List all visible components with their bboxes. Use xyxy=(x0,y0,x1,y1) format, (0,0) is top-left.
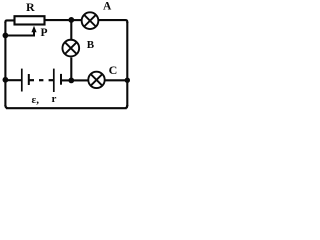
svg-text:R: R xyxy=(26,0,35,14)
lamp A xyxy=(82,12,99,29)
svg-text:A: A xyxy=(103,1,112,13)
junction dot right xyxy=(125,78,130,83)
wire slider horizontal xyxy=(5,31,34,36)
svg-text:C: C xyxy=(109,63,118,77)
battery dash xyxy=(39,79,43,81)
battery cell2 long plate xyxy=(53,69,55,92)
battery cell1 short plate xyxy=(28,74,30,85)
wire bottom xyxy=(5,105,127,108)
battery cell1 tick xyxy=(30,79,35,81)
junction dot battery left xyxy=(3,77,9,83)
slider arrow P head xyxy=(31,26,36,32)
wire lamp B to battery line xyxy=(70,58,72,81)
wire left vertical xyxy=(4,22,6,106)
lamp B xyxy=(62,40,79,57)
wire node to lamp A xyxy=(68,19,82,21)
wire lamp C to right wire xyxy=(105,79,127,81)
svg-text:r: r xyxy=(52,93,57,105)
wire battery left xyxy=(5,79,21,81)
battery cell2 tick xyxy=(49,79,54,81)
battery cell2 short plate xyxy=(60,74,62,85)
node junction top xyxy=(68,17,74,23)
wire node to lamp C xyxy=(73,79,88,81)
wire right vertical xyxy=(126,22,128,106)
wire top-left corner to resistor xyxy=(5,20,14,23)
wire battery to node xyxy=(62,79,69,81)
wire resistor right to node xyxy=(45,19,69,21)
lamp C xyxy=(88,72,104,88)
svg-text:B: B xyxy=(87,39,95,51)
wire node to lamp B xyxy=(70,20,72,39)
wire lamp A to right corner xyxy=(99,20,128,23)
svg-text:P: P xyxy=(41,27,48,39)
battery cell1 long plate xyxy=(21,69,23,92)
junction dot slider xyxy=(3,33,9,39)
resistor R box xyxy=(15,16,45,24)
node junction bottom xyxy=(68,78,74,84)
svg-text:ε,: ε, xyxy=(32,94,40,106)
